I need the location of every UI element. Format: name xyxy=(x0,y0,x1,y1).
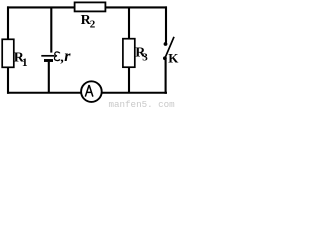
svg-text:3: 3 xyxy=(142,51,148,63)
svg-text:1: 1 xyxy=(22,57,28,69)
svg-text:manfen5. com: manfen5. com xyxy=(109,99,176,109)
svg-text:K: K xyxy=(168,51,179,66)
svg-text:2: 2 xyxy=(90,19,96,31)
svg-text:r: r xyxy=(64,48,71,65)
